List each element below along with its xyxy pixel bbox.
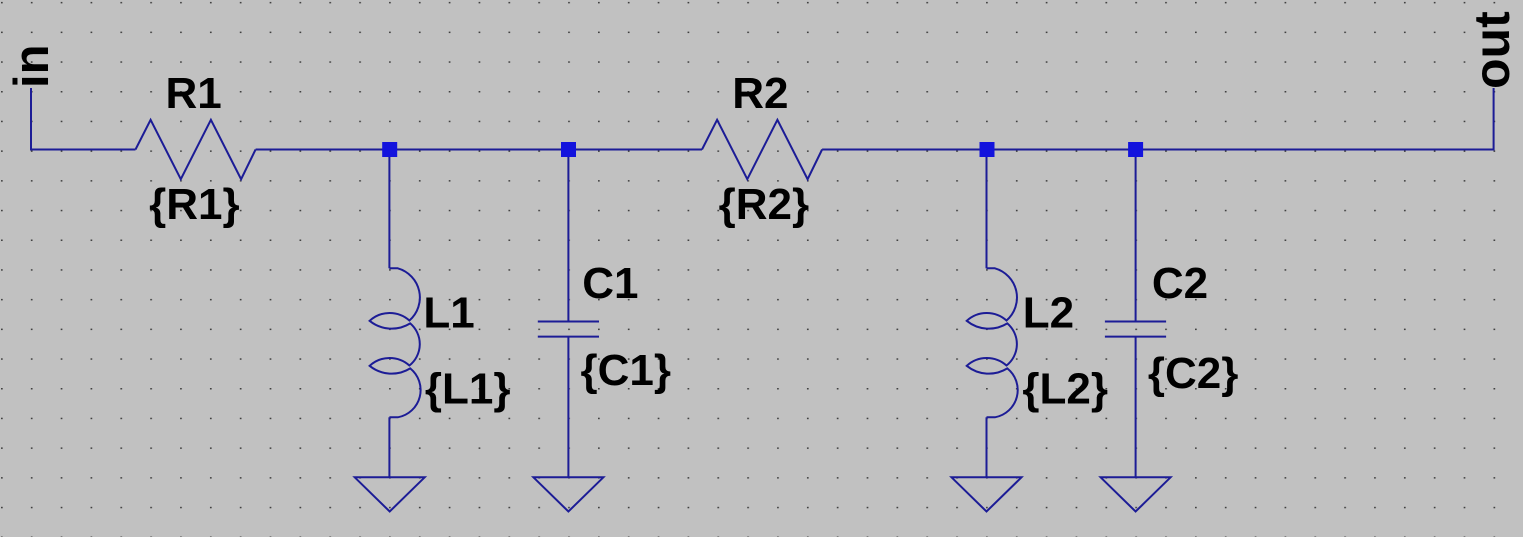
wire L2 bottom stem <box>986 417 988 477</box>
svg-text:{R1}: {R1} <box>149 180 240 229</box>
inductor L2 <box>967 268 1018 417</box>
capacitor C2 <box>1105 321 1166 323</box>
ground under L1 <box>355 477 425 511</box>
svg-text:R2: R2 <box>732 69 788 118</box>
node junction J2 <box>561 142 576 157</box>
ground under C1 <box>533 477 603 511</box>
resistor R2 <box>702 120 822 179</box>
svg-text:{L1}: {L1} <box>425 364 511 413</box>
wire C2 top stem <box>1135 150 1137 322</box>
node junction J3 <box>980 142 995 157</box>
svg-text:C2: C2 <box>1152 259 1208 308</box>
wire in-vertical <box>31 88 136 150</box>
wire C1 bottom stem <box>567 337 569 478</box>
wire C1 top stem <box>567 150 569 322</box>
svg-text:{L2}: {L2} <box>1022 364 1108 413</box>
svg-text:{R2}: {R2} <box>719 180 810 229</box>
ground under L2 <box>952 477 1022 511</box>
svg-text:out: out <box>1464 11 1520 89</box>
wire R2 to out <box>822 88 1494 150</box>
svg-text:in: in <box>5 44 59 88</box>
wire L1 bottom stem <box>388 417 390 477</box>
ground under C2 <box>1101 477 1171 511</box>
capacitor C1 <box>538 321 599 323</box>
node junction J1 <box>382 142 397 157</box>
svg-text:{C2}: {C2} <box>1148 349 1239 398</box>
wire L1 top stem <box>388 150 390 269</box>
svg-text:L2: L2 <box>1023 288 1074 337</box>
svg-text:R1: R1 <box>166 69 222 118</box>
svg-text:L1: L1 <box>423 288 474 337</box>
svg-text:{C1}: {C1} <box>581 346 672 395</box>
resistor R1 <box>136 120 256 179</box>
wire C2 bottom stem <box>1135 337 1137 478</box>
wire R1 to R2 <box>256 149 702 151</box>
inductor L1 <box>370 268 421 417</box>
wire L2 top stem <box>986 150 988 269</box>
svg-text:C1: C1 <box>582 259 638 308</box>
node junction J4 <box>1128 142 1143 157</box>
